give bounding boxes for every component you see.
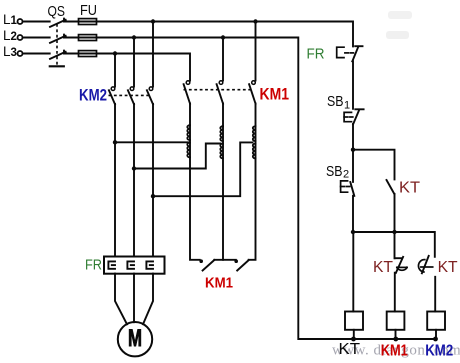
svg-text:KT: KT bbox=[399, 180, 421, 197]
svg-text:2: 2 bbox=[343, 169, 349, 181]
svg-text:M: M bbox=[128, 325, 142, 352]
svg-text:KT: KT bbox=[373, 259, 393, 276]
svg-text:KM1: KM1 bbox=[381, 342, 408, 359]
svg-text:KT: KT bbox=[339, 341, 361, 358]
svg-text:FU: FU bbox=[80, 2, 97, 19]
svg-text:KM2: KM2 bbox=[79, 87, 107, 105]
svg-text:KM2: KM2 bbox=[425, 342, 453, 359]
svg-text:SB: SB bbox=[326, 163, 343, 180]
svg-text:FR: FR bbox=[307, 46, 325, 63]
svg-text:L3: L3 bbox=[3, 44, 17, 59]
svg-text:L2: L2 bbox=[3, 28, 17, 43]
svg-text:KM1: KM1 bbox=[205, 274, 233, 291]
svg-text:QS: QS bbox=[48, 3, 66, 20]
svg-text:KM1: KM1 bbox=[260, 85, 290, 103]
svg-text:FR: FR bbox=[85, 257, 102, 274]
svg-text:KT: KT bbox=[438, 259, 458, 276]
svg-text:1: 1 bbox=[344, 100, 350, 112]
svg-text:SB: SB bbox=[327, 93, 344, 110]
svg-text:L1: L1 bbox=[3, 12, 18, 27]
